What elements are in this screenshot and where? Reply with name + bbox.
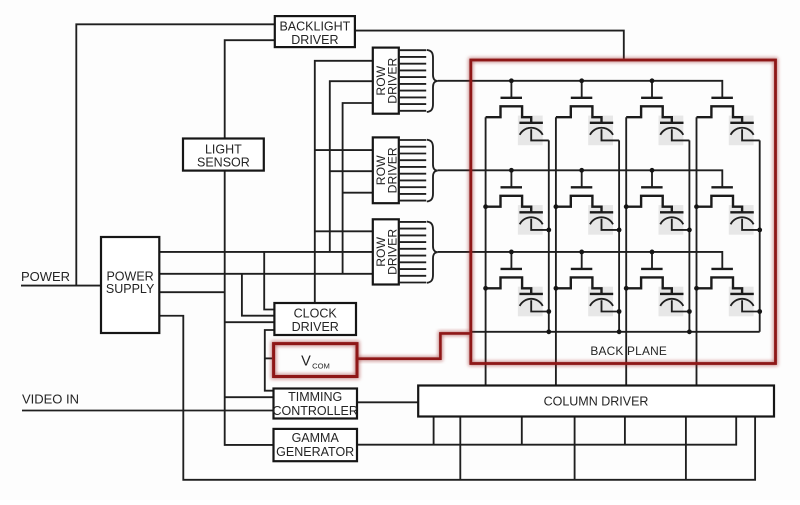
wire: capacitor common return line column 2 bbox=[618, 140, 620, 331]
wire: bus B tap to row driver U2 input 2 bbox=[330, 170, 373, 172]
wire: power supply output 4 down and along bottom bus to column driver bbox=[159, 316, 755, 480]
wire: column data line 2 to column driver bbox=[555, 117, 557, 385]
wire: light sensor line tap to clock driver left input bbox=[225, 321, 275, 323]
svg-text:COM: COM bbox=[312, 361, 330, 370]
wire: row 1 select line from row driver U1 into back plane bbox=[438, 81, 723, 98]
wire: column data line 4 to column driver bbox=[696, 117, 698, 385]
backlight driver box bbox=[275, 16, 355, 47]
wire: capacitor common return line column 3 bbox=[688, 140, 690, 331]
back plane boundary (red) bbox=[471, 60, 776, 364]
wire: H1 tap down to clock driver left input bbox=[264, 252, 274, 310]
wire: timing controller output to column driver bbox=[357, 401, 418, 403]
svg-text:CONTROLLER: CONTROLLER bbox=[272, 404, 357, 418]
wire: power branch up-left to backlight driver bbox=[76, 24, 274, 285]
svg-text:DRIVER: DRIVER bbox=[386, 229, 400, 275]
timing controller box bbox=[272, 389, 357, 419]
row driver U2 output comb (10 gate lines) bbox=[399, 140, 426, 201]
pixel cell row 3 col 1: TFT Q31 with storage capacitor C31 bbox=[486, 252, 549, 316]
pixel cell row 3 col 2: TFT Q32 with storage capacitor C32 bbox=[556, 252, 619, 316]
wire: bus C tap to row driver U2 input 3 bbox=[343, 192, 373, 194]
wire H2: power supply output 2 to row driver U3 input 3 bbox=[159, 273, 372, 275]
pixel cell row 2 col 2: TFT Q22 with storage capacitor C22 bbox=[556, 170, 619, 234]
svg-text:COLUMN DRIVER: COLUMN DRIVER bbox=[544, 394, 649, 408]
svg-text:DRIVER: DRIVER bbox=[291, 33, 338, 47]
wire: VIDEO IN line to timing controller bbox=[22, 410, 274, 412]
wire: light sensor top to backlight driver left bbox=[225, 40, 275, 139]
wire: capacitor common return line column 4 bbox=[759, 140, 761, 331]
wire: row 2 select line from row driver U2 into back plane bbox=[438, 170, 723, 187]
wire: column data line 3 to column driver bbox=[625, 117, 627, 385]
wire: column driver bottom stubs to power bus bbox=[460, 417, 686, 480]
wire: tap to timing controller input 1 bbox=[225, 396, 274, 398]
svg-text:DRIVER: DRIVER bbox=[292, 320, 339, 334]
svg-text:GAMMA: GAMMA bbox=[292, 431, 340, 445]
wire: Vcom output (red) to back plane bbox=[357, 333, 469, 358]
svg-text:SUPPLY: SUPPLY bbox=[106, 282, 155, 296]
svg-text:DRIVER: DRIVER bbox=[386, 57, 400, 103]
wire bus A: clock driver top to row driver inputs 1 bbox=[315, 61, 373, 303]
svg-text:POWER: POWER bbox=[21, 269, 70, 284]
wire: backlight driver output to back plane top bbox=[355, 31, 624, 59]
svg-text:DRIVER: DRIVER bbox=[386, 147, 400, 193]
svg-text:SENSOR: SENSOR bbox=[197, 155, 250, 169]
row driver U2 box bbox=[373, 137, 400, 203]
svg-text:BACK PLANE: BACK PLANE bbox=[590, 344, 667, 358]
pixel cell row 3 col 3: TFT Q33 with storage capacitor C33 bbox=[626, 252, 689, 316]
wire: tap to Vcom left input bbox=[265, 357, 272, 359]
pixel cell row 2 col 1: TFT Q21 with storage capacitor C21 bbox=[486, 170, 549, 234]
pixel cell row 3 col 4: TFT Q34 with storage capacitor C34 bbox=[697, 269, 760, 316]
svg-text:VIDEO IN: VIDEO IN bbox=[22, 391, 79, 406]
wire: bus A tap to row driver U3 input 1 bbox=[315, 230, 373, 232]
brace grouping row driver U1 outputs bbox=[427, 50, 438, 112]
brace grouping row driver U2 outputs bbox=[427, 140, 438, 202]
wire: POWER input line bbox=[21, 285, 101, 287]
clock driver box bbox=[274, 303, 356, 335]
pixel cell row 1 col 1: TFT Q11 with storage capacitor C11 bbox=[486, 81, 549, 145]
svg-text:V: V bbox=[301, 353, 311, 369]
pixel cell row 2 col 3: TFT Q23 with storage capacitor C23 bbox=[626, 170, 689, 234]
gamma generator box bbox=[274, 429, 358, 461]
POWER net label bbox=[21, 269, 70, 284]
wire: clock driver left output down to timing controller bbox=[265, 330, 275, 391]
wire: capacitor common return line column 1 bbox=[548, 140, 550, 331]
wire H1: power supply output 1 to row driver U3 input 2 bbox=[159, 251, 372, 253]
pixel cell row 1 col 3: TFT Q13 with storage capacitor C13 bbox=[626, 81, 689, 145]
row driver U3 box bbox=[373, 219, 400, 284]
wire: column driver bottom stubs to gamma bus bbox=[434, 417, 625, 445]
VIDEO IN net label bbox=[22, 391, 79, 406]
wire: gamma generator output bus to column driver bottom bbox=[357, 417, 736, 445]
pixel cell row 2 col 4: TFT Q24 with storage capacitor C24 bbox=[697, 187, 760, 234]
brace grouping row driver U3 outputs bbox=[427, 222, 438, 283]
wire: row 3 select line from row driver U3 into back plane bbox=[438, 252, 723, 269]
wire bus C: H2 up to row driver U1 input 3 bbox=[343, 103, 373, 274]
svg-text:CLOCK: CLOCK bbox=[294, 306, 338, 320]
wire: bus A tap to row driver U2 input 1 bbox=[315, 149, 373, 151]
svg-text:TIMMING: TIMMING bbox=[288, 390, 342, 404]
power supply box bbox=[101, 237, 159, 333]
column driver box bbox=[418, 386, 774, 417]
BACK PLANE label bbox=[590, 344, 667, 358]
row driver U1 output comb (10 gate lines) bbox=[399, 50, 426, 111]
pixel cell row 1 col 4: TFT Q14 with storage capacitor C14 bbox=[697, 98, 760, 145]
row driver U1 box bbox=[373, 48, 400, 114]
row driver U3 output comb (10 gate lines) bbox=[399, 222, 426, 283]
light sensor box bbox=[183, 139, 264, 171]
wire: light sensor down to timing controller and gamma generator bbox=[225, 171, 274, 445]
wire H3: power supply output 3 to light sensor line bbox=[159, 291, 224, 293]
wire: H2 tap down to clock driver left input bbox=[242, 274, 275, 316]
node: Vcom common electrode line in back plane bbox=[471, 331, 760, 333]
svg-text:GENERATOR: GENERATOR bbox=[276, 445, 354, 459]
Vcom box (red) bbox=[274, 344, 357, 377]
svg-text:BACKLIGHT: BACKLIGHT bbox=[279, 20, 350, 34]
pixel cell row 1 col 2: TFT Q12 with storage capacitor C12 bbox=[556, 81, 619, 145]
wire bus B: H1 up to row driver U1 input 2 bbox=[330, 81, 373, 252]
junction dots bbox=[483, 78, 762, 334]
wire: column data line 1 to column driver bbox=[485, 117, 487, 385]
